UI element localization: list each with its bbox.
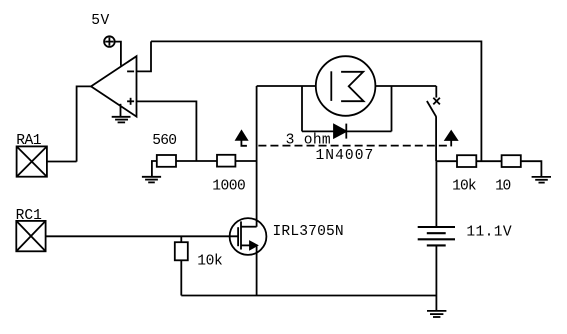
svg-text:10k: 10k [197,253,223,269]
resistor R 1000 [217,155,235,167]
switch SW1 [427,86,440,161]
svg-text:10: 10 [495,179,511,195]
current arrow right [445,131,457,146]
wire RA1 to op-amp output [47,161,77,163]
svg-text:5V: 5V [91,13,109,29]
wire 10k to 10 [476,160,501,162]
wire flyback loop right [391,86,393,131]
wire motor left lead [257,85,316,87]
dashed current path line [258,145,447,147]
resistor R 10k pulldown [175,236,188,260]
svg-text:11.1V: 11.1V [466,224,512,240]
motor M1 [316,56,376,116]
ground under op-amp [112,104,131,123]
wire 560 left to ground [152,161,157,177]
wire flyback loop left [301,86,303,131]
pad RC1 [16,221,45,251]
pad RA1 [17,146,47,176]
wire bottom rail [181,295,436,297]
resistor R 560 [157,155,176,167]
power supply symbol 5V [104,36,115,47]
wire motor node down to MOSFET drain [256,86,258,227]
resistor R 10k (right) [457,155,476,167]
wire RC1 to MOSFET gate [46,235,239,237]
svg-text:560: 560 [152,133,177,149]
wire op-amp output to RA1 net [77,86,91,161]
svg-text:10k: 10k [452,179,477,195]
op-amp U1 [91,56,137,116]
wire switch to 10k [436,160,457,162]
ground bottom [427,296,446,318]
current arrow left [236,131,247,146]
wire battery minus down [435,245,437,295]
svg-text:1N4007: 1N4007 [316,148,374,164]
MOSFET Q1 [230,218,267,255]
wire motor right lead [375,85,436,87]
wire MOSFET source down [256,245,258,295]
wire 560 to 1000 [176,160,217,162]
wire op-amp non-inverting input down to divider [137,101,197,161]
wire pulldown to bottom rail [180,260,182,295]
wire op-amp inverting input to top rail [137,41,152,71]
ground at 560 [142,177,161,183]
wire 1000 to drain node [235,160,256,162]
wire node to battery plus [435,161,437,227]
svg-text:IRL3705N: IRL3705N [273,224,344,240]
wire flyback loop bottom [302,130,392,132]
wire 5V supply to op-amp top edge [115,42,121,66]
wire 10 to ground [521,161,542,177]
ground right [532,177,551,183]
svg-text:1000: 1000 [212,178,246,194]
diode D1 1N4007 [334,124,346,139]
battery BT1 [418,227,455,245]
wire top rail [151,41,481,161]
resistor R 10 [502,155,521,167]
